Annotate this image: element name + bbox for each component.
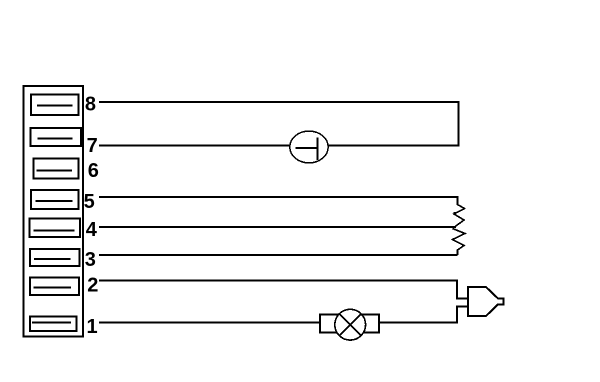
pin 1 socket [30,317,76,332]
resistor R2 zigzag between wire4 and wire3 [453,229,466,256]
svg-text:6: 6 [88,160,99,182]
lamp L1 circle [335,309,366,340]
wire pin2 horizontal [99,280,457,282]
wire pin1 left segment [99,321,320,323]
pin 3 socket [30,249,79,266]
wire pin8 horizontal [99,101,459,103]
wire pin5 [99,196,458,198]
pin 4 socket [30,219,81,237]
plug connector P1 [468,287,504,316]
resistor R1 zigzag between wire5 and wire4 [453,196,465,229]
junction blob on R1 left vertex [453,212,456,215]
wire stub into plug upper [456,297,468,299]
svg-text:1: 1 [87,316,98,338]
pin 6 socket [34,158,79,178]
pin 7 socket [30,128,81,146]
wire stub into plug lower [456,306,468,308]
wire pin3 [99,254,458,256]
pin 5 socket [31,190,78,209]
lamp L1 X diagonal 1 [339,314,361,336]
lamp L1 box [320,314,379,332]
svg-text:4: 4 [86,219,98,241]
wire pin1 vertical up [456,307,458,324]
wire pin8-pin7 vertical [458,101,460,147]
sensor symbol B1 (circle with T) on wire 7 [290,131,328,163]
lamp L1 X diagonal 2 [339,314,361,336]
connector J1 outer body [24,86,83,337]
pin 2 socket [30,278,79,295]
svg-text:8: 8 [85,94,96,116]
wire pin7 right segment [329,145,460,147]
svg-text:3: 3 [85,249,96,271]
svg-text:7: 7 [87,135,98,157]
wire pin7 left segment [99,145,290,147]
wire pin4 [99,226,456,228]
wire pin2 vertical down [456,280,458,299]
svg-text:5: 5 [84,191,95,213]
wire pin1 right segment [379,321,457,323]
pin 8 socket [31,95,79,116]
svg-text:2: 2 [87,274,98,296]
